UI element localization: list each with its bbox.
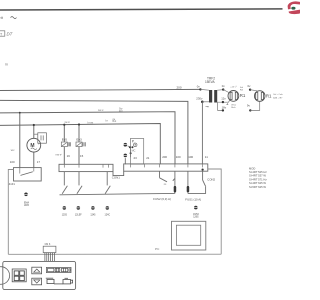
svg-text:br ws: br ws xyxy=(88,121,95,124)
svg-text:W26: W26 xyxy=(24,205,29,207)
svg-text:41F1: 41F1 xyxy=(9,182,16,186)
svg-text:126S: 126S xyxy=(193,216,199,218)
svg-text:sw s¹: sw s¹ xyxy=(65,121,71,124)
svg-text:CON1: CON1 xyxy=(112,176,120,180)
svg-text:12v: 12v xyxy=(221,96,226,100)
svg-text:200: 200 xyxy=(162,155,167,159)
svg-text:in: in xyxy=(5,62,8,66)
svg-text:ns: ns xyxy=(164,184,167,186)
svg-text:17: 17 xyxy=(37,160,41,164)
svg-text:230v: 230v xyxy=(196,97,203,101)
svg-text:R1: R1 xyxy=(240,93,246,98)
svg-text:100: 100 xyxy=(188,155,193,159)
svg-text:mw s¹: mw s¹ xyxy=(56,153,63,156)
svg-text:100: 100 xyxy=(10,160,15,164)
svg-text:200: 200 xyxy=(177,86,182,90)
svg-text:ett: ett xyxy=(0,15,4,20)
svg-text:Rot: Rot xyxy=(113,120,117,123)
svg-text:1245: 1245 xyxy=(90,215,96,217)
svg-text:DT: DT xyxy=(7,32,13,37)
svg-text:21: 21 xyxy=(146,156,150,160)
svg-text:18v: 18v xyxy=(222,106,227,110)
svg-text:MC: MC xyxy=(132,150,136,153)
svg-text:15EVA: 15EVA xyxy=(205,80,216,84)
svg-text:Ev5: Ev5 xyxy=(62,138,68,142)
svg-text:1205: 1205 xyxy=(62,215,68,217)
svg-text:PC: PC xyxy=(155,247,160,251)
svg-text:SI-4RT 537 W: SI-4RT 537 W xyxy=(249,174,266,178)
svg-text:MOD: MOD xyxy=(249,166,255,170)
svg-text:FUS2 (6,3) A): FUS2 (6,3) A) xyxy=(153,197,171,201)
svg-text:R1: R1 xyxy=(266,93,272,98)
svg-text:Ev3: Ev3 xyxy=(76,138,82,142)
svg-text:0v: 0v xyxy=(197,85,201,89)
svg-text:12LEF: 12LEF xyxy=(75,215,82,217)
svg-text:CON2: CON2 xyxy=(207,178,215,182)
svg-text:16: 16 xyxy=(67,154,71,158)
svg-text:Rot: Rot xyxy=(119,110,123,113)
svg-text:124C: 124C xyxy=(105,215,111,217)
svg-text:15: 15 xyxy=(80,154,84,158)
svg-text:0v: 0v xyxy=(248,84,252,88)
svg-text:EMA: EMA xyxy=(24,201,29,204)
svg-text:Sal + Cafe: Sal + Cafe xyxy=(273,94,283,96)
svg-text:Meh: Meh xyxy=(231,107,236,109)
svg-text:SI-4RT 525 Hz: SI-4RT 525 Hz xyxy=(249,170,267,174)
svg-text:23: 23 xyxy=(134,156,138,160)
svg-text:Rel: Rel xyxy=(240,90,244,92)
svg-text:9v: 9v xyxy=(247,103,251,107)
svg-text:0v: 0v xyxy=(222,84,226,88)
svg-text:SI-5RT 625 W: SI-5RT 625 W xyxy=(249,185,266,189)
svg-text:A4B + IE7: A4B + IE7 xyxy=(273,96,283,99)
svg-text:+24 v²: +24 v² xyxy=(230,85,236,88)
svg-text:100: 100 xyxy=(176,155,181,159)
svg-text:CN 3: CN 3 xyxy=(45,243,51,246)
svg-text:SI-4RT 571 Hz: SI-4RT 571 Hz xyxy=(249,177,267,181)
svg-text:FUS1 (10 A): FUS1 (10 A) xyxy=(185,197,201,201)
svg-text:ws s¹: ws s¹ xyxy=(98,109,104,112)
svg-text:ws¹: ws¹ xyxy=(11,149,15,152)
svg-text:SI-4RT 625 W: SI-4RT 625 W xyxy=(249,181,266,185)
svg-text:T: T xyxy=(0,32,3,36)
svg-text:br: br xyxy=(106,120,108,123)
svg-text:11: 11 xyxy=(205,155,208,159)
